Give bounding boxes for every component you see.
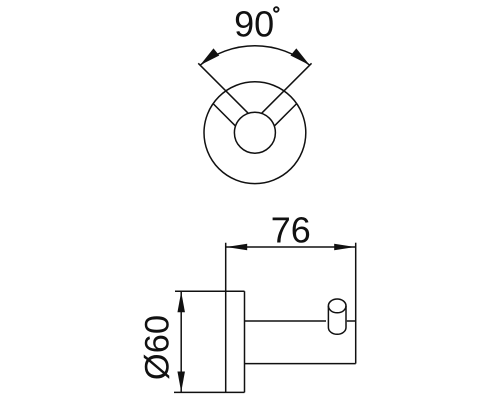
90-dim left arrowhead — [200, 48, 219, 65]
right prong upper edge / 90-dim extension line — [262, 63, 312, 113]
svg-text:Ø60: Ø60 — [138, 315, 176, 380]
flange left edge + 76-dim left extension line — [225, 243, 227, 393]
right prong lower edge — [274, 104, 296, 126]
left prong lower edge — [213, 104, 235, 126]
76-dim left arrowhead — [226, 244, 247, 251]
arm right end + 76-dim right extension line — [355, 243, 357, 364]
diameter-60 top arrowhead — [177, 292, 185, 313]
outer circle (hook flange, front view) — [204, 82, 306, 184]
svg-text:90: 90 — [234, 3, 274, 44]
degree symbol ring — [274, 7, 279, 12]
flange top edge + diameter-60 top extension line — [175, 290, 245, 292]
flange bottom edge + diameter-60 bottom extension line — [174, 391, 245, 393]
76-dim right arrowhead — [334, 244, 355, 251]
90-degree dimension arc — [200, 46, 310, 65]
inner circle (hook hub, front view) — [234, 112, 275, 153]
arm bottom edge — [245, 363, 356, 365]
diameter-60 dimension line — [180, 292, 182, 392]
hook tip cylinder left side — [327, 306, 329, 328]
hook tip cylinder top ellipse — [328, 299, 346, 313]
svg-text:76: 76 — [271, 210, 311, 251]
hook tip cylinder bottom arc — [328, 328, 346, 335]
arm top edge left segment — [245, 320, 327, 322]
flange right edge (side view) — [244, 291, 246, 392]
arm top edge right segment — [347, 320, 356, 322]
hook tip cylinder right side — [345, 306, 347, 328]
76 dimension line — [226, 246, 356, 248]
left prong upper edge / 90-dim extension line — [198, 63, 248, 113]
90-dim right arrowhead — [291, 48, 310, 65]
diameter-60 bottom arrowhead — [177, 372, 185, 393]
